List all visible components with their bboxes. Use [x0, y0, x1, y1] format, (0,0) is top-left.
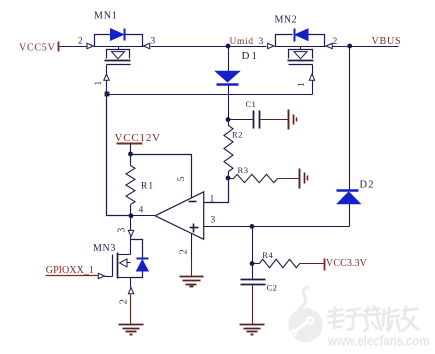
svg-text:1: 1: [94, 80, 104, 85]
capacitor C1 plates: [253, 111, 255, 129]
resistor R4: [253, 263, 260, 265]
transistor MN2 source-drain rail: [275, 46, 326, 48]
capacitor C2 plates: [241, 279, 266, 281]
transistor MN2 channel bar: [288, 60, 314, 62]
wire MN2 pin 2 to VBUS: [333, 46, 399, 48]
svg-text:VCC5V: VCC5V: [19, 43, 56, 54]
wire MN3 pin3 to drain stub: [130, 237, 132, 255]
ground symbol at R3: [299, 169, 301, 189]
wire gate line horizontal to MN2 gate: [107, 94, 313, 96]
pin arrow MN1 pin 1: [104, 74, 109, 80]
svg-text:2: 2: [78, 37, 83, 47]
node op-amp output junction (pin 4): [129, 213, 134, 218]
svg-text:R2: R2: [232, 129, 243, 139]
svg-text:5: 5: [177, 176, 187, 181]
wire MN3 source down to pin 2 arrow: [130, 278, 132, 288]
ground symbol at C1: [288, 110, 290, 130]
svg-text:MN1: MN1: [94, 11, 118, 22]
wire MN2 pin 1 down to gate line: [312, 81, 314, 95]
power terminal tick VCC3.3V: [324, 259, 326, 271]
transistor MN2 gate bar: [289, 64, 313, 66]
transistor MN1 channel bar: [105, 60, 131, 62]
op-amp U1 triangle: [155, 192, 204, 240]
wire op-amp pin 2 down to ground: [191, 234, 193, 259]
wire Umid down to D1: [228, 47, 230, 72]
svg-text:3: 3: [211, 216, 216, 226]
wire R4 node down to C2: [252, 264, 254, 279]
pin arrow MN3 pin 3: [128, 230, 133, 236]
wire MN3 diode anode to source loop: [131, 271, 143, 278]
diode D1 (blue, pointing down): [216, 71, 240, 82]
transistor MN2 body-diode loop wire: [276, 35, 293, 47]
wire D1 cathode down to divider node: [228, 85, 230, 120]
wire GPIOXX_1 arrow to MN3 gate: [105, 276, 113, 278]
wire VCC5V to MN1 pin 2: [60, 46, 87, 48]
body diode of MN1 (blue): [111, 29, 124, 40]
wire D2 anode down to plus-input net: [349, 204, 351, 227]
node Umid junction: [226, 44, 231, 49]
power terminal tick VCC5V: [58, 42, 60, 52]
power bar VCC12V: [117, 143, 143, 145]
resistor R2: [224, 126, 233, 172]
wire R4 to VCC3.3V tick: [300, 263, 325, 265]
svg-text:4: 4: [139, 206, 144, 216]
wire GPIOXX_1 underline lead: [46, 275, 99, 277]
svg-text:1: 1: [297, 82, 307, 87]
svg-text:C1: C1: [246, 99, 257, 109]
transistor MN1 source-drain rail: [94, 46, 144, 48]
wire op-amp output node down to MN3 pin 3: [130, 216, 132, 231]
node VCC12V junction: [128, 152, 133, 157]
transistor MN2 mosfet body: [300, 47, 302, 50]
svg-text:MN3: MN3: [93, 243, 116, 254]
svg-text:VCC3.3V: VCC3.3V: [326, 258, 368, 269]
pin arrow MN2 pin 3: [268, 43, 274, 48]
wire MN3 pin 2 to ground: [130, 295, 132, 325]
wire op-amp pin 3 (plus input) to D2: [204, 226, 350, 228]
wire MN1 pin 3 to MN2 pin 3 (Umid rail): [151, 46, 267, 48]
body diode of MN3 (blue, pointing up): [137, 258, 149, 260]
svg-text:3: 3: [117, 227, 128, 232]
watermark chinese text strokes: [328, 307, 418, 331]
transistor MN3 drain stub: [118, 254, 131, 256]
svg-text:R3: R3: [238, 165, 249, 175]
op-amp non-inverting input plus sign: [190, 227, 199, 229]
transistor MN3 substrate arrow: [120, 259, 128, 267]
svg-text:VBUS: VBUS: [372, 36, 402, 47]
wire MN1 gate bar to pin 1 arrow: [106, 65, 108, 75]
svg-text:3: 3: [259, 37, 264, 47]
svg-text:R1: R1: [141, 181, 154, 191]
pin arrow MN1 pin 2: [87, 43, 93, 48]
svg-text:MN2: MN2: [275, 15, 298, 26]
transistor MN3 channel bar: [117, 253, 119, 279]
svg-text:D1: D1: [242, 50, 259, 62]
wire R3 to ground: [278, 178, 300, 180]
svg-text:C2: C2: [267, 282, 278, 292]
node VBUS junction: [347, 44, 352, 49]
node R4/C2 junction: [250, 261, 255, 266]
transistor MN1 gate bar: [107, 64, 131, 66]
wire plus-input junction down to R4 node: [252, 227, 254, 264]
node plus-input junction: [250, 224, 255, 229]
wire C1 to ground: [261, 119, 289, 121]
pin arrow MN2 pin 1: [309, 74, 314, 80]
wire divider node to C1: [229, 119, 253, 121]
resistor R3: [229, 178, 234, 180]
ground symbol at MN3 source: [119, 324, 144, 326]
node divider top junction: [226, 117, 231, 122]
svg-text:D2: D2: [360, 179, 375, 190]
wire divider node down to op-amp pin 1: [204, 179, 229, 203]
svg-text:R4: R4: [262, 250, 273, 260]
wire C2 to ground: [252, 286, 254, 325]
wire MN1 gate node down to op-amp output node: [107, 95, 131, 216]
pin arrow MN1 pin 3: [144, 43, 150, 48]
svg-text:2: 2: [333, 37, 338, 47]
transistor MN1 body-diode loop wire: [95, 35, 111, 47]
svg-text:2: 2: [119, 299, 130, 304]
watermark logo circle: [288, 288, 322, 343]
svg-text:Umid: Umid: [230, 37, 254, 47]
wire VBUS down to D2 cathode: [349, 47, 351, 190]
transistor MN3 body-diode loop wire: [131, 240, 143, 258]
svg-text:3: 3: [151, 37, 156, 47]
svg-text:www.elecfans.com: www.elecfans.com: [327, 332, 429, 348]
svg-text:1: 1: [210, 195, 215, 205]
node gate drive junction (MN1 gate / op-amp output): [105, 92, 110, 97]
pin arrow GPIOXX_1: [98, 273, 104, 278]
pin arrow MN3 pin 2: [128, 288, 133, 294]
transistor MN3 source stub: [118, 277, 131, 279]
op-amp inverting input minus sign: [189, 201, 197, 203]
wire MN1 pin 1 down to gate node: [106, 81, 108, 95]
wire MN2 gate bar to pin 1 arrow: [312, 65, 314, 75]
wire op-amp output to apex: [131, 215, 155, 217]
svg-text:VCC12V: VCC12V: [115, 132, 161, 144]
svg-text:2: 2: [179, 249, 190, 254]
pin arrow MN2 pin 2: [326, 43, 332, 48]
node divider bottom junction: [226, 176, 231, 181]
wire VCC12V bar to junction: [130, 144, 132, 155]
resistor R1: [130, 155, 132, 166]
transistor MN3 gate bar: [112, 255, 114, 277]
transistor MN1 mosfet body: [118, 47, 120, 50]
body diode of MN2 (blue, pointing left): [295, 29, 308, 41]
diode D2 (blue, pointing up): [337, 189, 359, 191]
ground symbol at C2: [240, 324, 265, 326]
svg-text:GPIOXX_1: GPIOXX_1: [46, 265, 94, 276]
wire junction to op-amp pin 5: [131, 155, 192, 198]
ground symbol at op-amp pin 2: [180, 276, 204, 278]
